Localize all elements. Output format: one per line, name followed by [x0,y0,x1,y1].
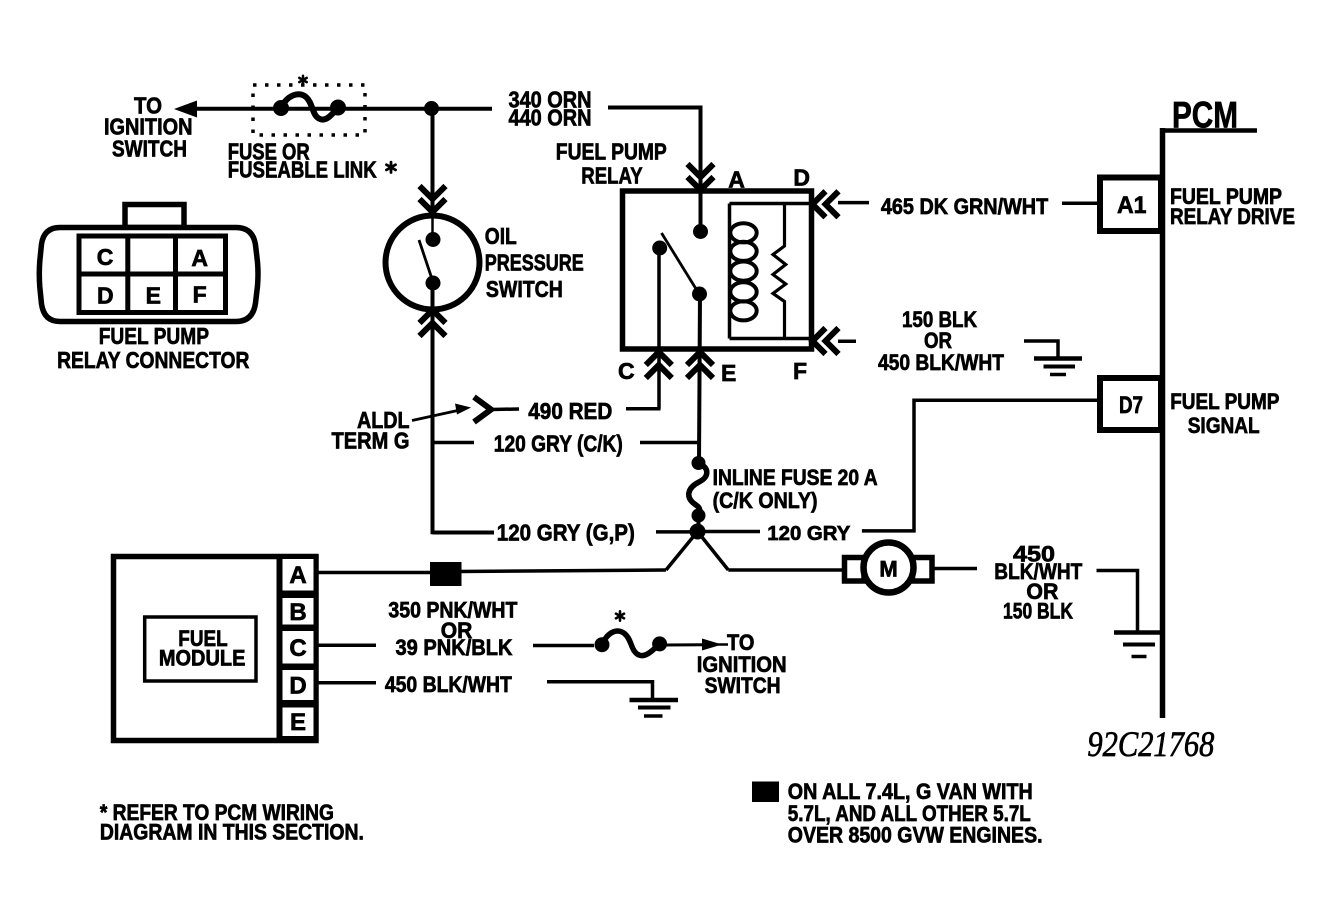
svg-text:INLINE FUSE 20 A: INLINE FUSE 20 A [713,465,878,490]
svg-text:FUSEABLE LINK: FUSEABLE LINK [228,157,377,183]
svg-text:SWITCH: SWITCH [486,276,563,302]
svg-text:E: E [721,360,736,386]
svg-text:490 RED: 490 RED [528,398,612,424]
svg-text:120 GRY (C/K): 120 GRY (C/K) [494,431,623,457]
svg-text:SIGNAL: SIGNAL [1188,413,1260,438]
svg-text:MODULE: MODULE [159,645,246,670]
svg-text:A: A [728,166,745,192]
svg-text:450 BLK/WHT: 450 BLK/WHT [878,350,1004,375]
svg-text:RELAY CONNECTOR: RELAY CONNECTOR [57,347,250,373]
svg-text:D: D [97,282,114,308]
svg-text:C: C [618,358,635,384]
svg-text:OIL: OIL [485,223,517,249]
svg-text:FUEL PUMP: FUEL PUMP [99,323,209,349]
svg-text:DIAGRAM IN THIS SECTION.: DIAGRAM IN THIS SECTION. [100,820,364,845]
svg-text:RELAY: RELAY [581,163,642,189]
svg-text:FUEL PUMP: FUEL PUMP [1170,389,1279,414]
svg-text:465 DK GRN/WHT: 465 DK GRN/WHT [881,194,1049,219]
svg-text:120 GRY: 120 GRY [767,523,851,545]
svg-text:A: A [289,562,306,589]
svg-text:A: A [191,245,208,271]
svg-text:39 PNK/BLK: 39 PNK/BLK [396,635,513,660]
svg-text:D7: D7 [1119,392,1143,419]
svg-text:92C21768: 92C21768 [1087,724,1214,764]
svg-text:E: E [146,282,161,308]
svg-text:FUEL PUMP: FUEL PUMP [556,139,667,165]
svg-text:C: C [97,244,114,270]
svg-text:OVER 8500 GVW ENGINES.: OVER 8500 GVW ENGINES. [788,822,1043,847]
svg-text:B: B [289,599,306,626]
svg-text:M: M [879,557,897,582]
svg-text:SWITCH: SWITCH [705,673,781,698]
svg-text:A1: A1 [1117,192,1147,219]
svg-text:450 BLK/WHT: 450 BLK/WHT [385,672,512,697]
svg-text:C: C [289,635,306,662]
svg-text:PRESSURE: PRESSURE [485,250,584,276]
svg-text:120 GRY (G,P): 120 GRY (G,P) [497,520,635,546]
svg-text:D: D [289,672,306,699]
svg-text:D: D [793,165,810,191]
svg-text:RELAY DRIVE: RELAY DRIVE [1170,204,1295,229]
svg-text:150 BLK: 150 BLK [1003,599,1073,624]
svg-text:440 ORN: 440 ORN [509,104,592,130]
svg-text:TERM G: TERM G [332,428,410,454]
svg-text:F: F [193,281,207,307]
svg-text:F: F [793,358,807,384]
svg-text:SWITCH: SWITCH [112,136,187,162]
svg-text:E: E [290,709,306,736]
svg-text:(C/K ONLY): (C/K ONLY) [713,488,818,513]
